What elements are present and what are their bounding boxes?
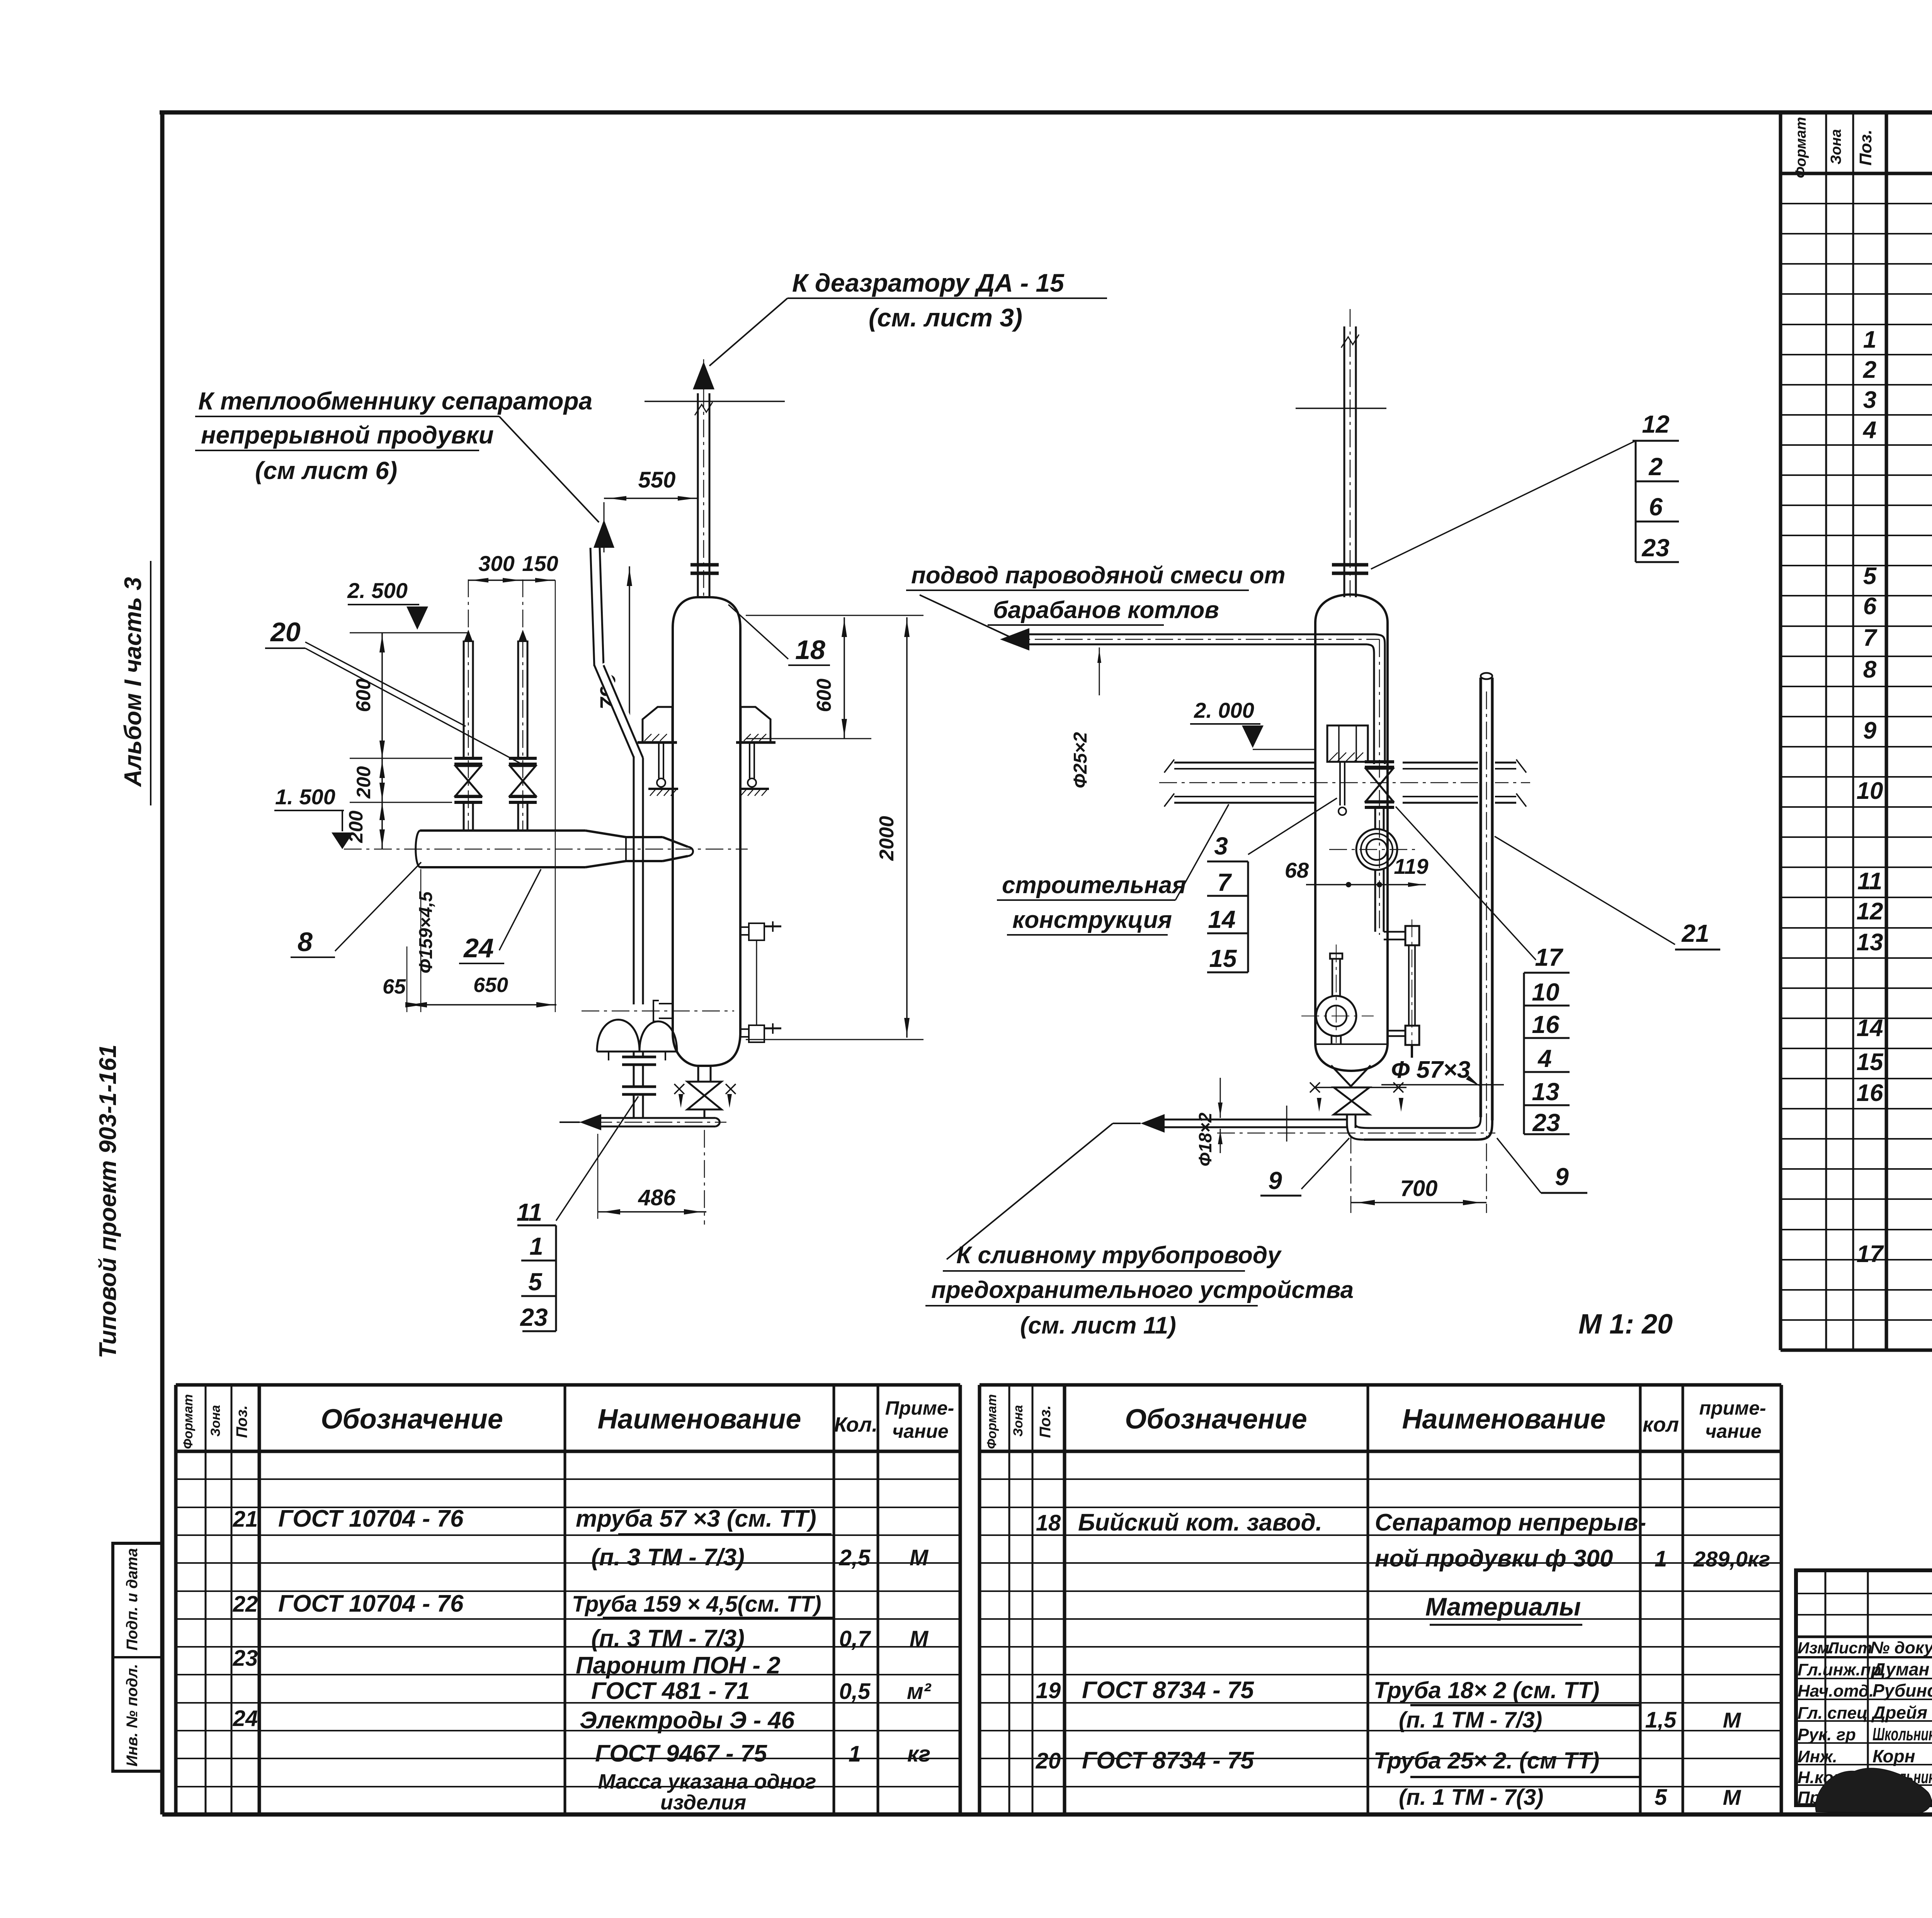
dims 68 / 119 (1306, 884, 1426, 885)
svg-text:М: М (1723, 1785, 1742, 1809)
leader to heat exchanger arrow (499, 416, 599, 522)
svg-text:10: 10 (1857, 778, 1883, 804)
dim 600 right (844, 617, 845, 739)
vessel support bracket right (741, 707, 770, 742)
svg-text:Рубинс: Рубинс (1872, 1680, 1932, 1701)
svg-text:3: 3 (1214, 832, 1228, 860)
svg-text:9: 9 (1863, 717, 1877, 744)
smudge blob (1816, 1768, 1931, 1813)
side stub on vessel left (blowdown fitting) (659, 1004, 673, 1018)
svg-text:Обозначение: Обозначение (321, 1404, 503, 1435)
svg-text:Зона: Зона (1011, 1405, 1026, 1437)
vertical pipe of safety device (633, 871, 635, 1004)
dim 700 (1351, 1202, 1486, 1203)
svg-text:м²: м² (907, 1679, 932, 1704)
svg-text:ГОСТ 10704 - 76: ГОСТ 10704 - 76 (278, 1590, 464, 1617)
inlet pipe from boilers (1028, 634, 1375, 635)
svg-text:24: 24 (233, 1706, 258, 1731)
svg-text:0,7: 0,7 (839, 1626, 871, 1651)
blowdown fitting circle with rod (1316, 996, 1356, 1036)
sheet frame (160, 112, 165, 1814)
svg-text:550: 550 (638, 467, 676, 493)
svg-text:3: 3 (1863, 387, 1876, 413)
svg-text:150: 150 (522, 551, 558, 576)
leader to deaerator arrow (709, 298, 787, 366)
svg-text:К деазратору ДА - 15: К деазратору ДА - 15 (792, 268, 1065, 297)
svg-text:Ф18×2: Ф18×2 (1195, 1113, 1215, 1167)
dim chain 600/200/200 (381, 633, 383, 849)
svg-text:Бийский кот. завод.: Бийский кот. завод. (1078, 1509, 1322, 1536)
header pipe (collector) (416, 831, 420, 867)
svg-text:Электроды Э - 46: Электроды Э - 46 (580, 1707, 795, 1734)
svg-text:11: 11 (1857, 868, 1882, 895)
svg-text:Поз.: Поз. (1856, 129, 1875, 165)
svg-text:М: М (910, 1626, 929, 1651)
svg-text:2000: 2000 (876, 816, 898, 861)
flange pair upper on safety pipe (633, 1052, 635, 1057)
svg-text:1: 1 (1655, 1546, 1667, 1571)
flow arrow up (deaerator pipe) (693, 362, 714, 389)
dim 2000 (906, 617, 908, 1038)
svg-text:486: 486 (638, 1185, 676, 1210)
svg-text:65: 65 (383, 975, 406, 998)
svg-text:Лист: Лист (1827, 1639, 1872, 1657)
hanger bracket on beam (1327, 725, 1368, 762)
svg-text:Альбом I часть 3: Альбом I часть 3 (120, 577, 146, 788)
svg-text:ГОСТ 8734 - 75: ГОСТ 8734 - 75 (1082, 1747, 1254, 1774)
dim 65 / 650 (407, 1004, 556, 1006)
svg-text:4: 4 (1537, 1045, 1552, 1072)
svg-text:Корн: Корн (1872, 1746, 1915, 1766)
svg-text:17: 17 (1535, 943, 1564, 971)
svg-text:9: 9 (1555, 1163, 1569, 1191)
svg-text:15: 15 (1857, 1049, 1884, 1075)
flow restrictor circle (1356, 829, 1397, 870)
structural beam (1174, 762, 1315, 764)
svg-text:23: 23 (520, 1303, 548, 1331)
flow arrow up (heat exchanger line) (594, 520, 614, 548)
svg-text:К сливному трубопроводу: К сливному трубопроводу (956, 1242, 1282, 1269)
dim 300/150 (468, 579, 555, 581)
svg-text:(см. лист 11): (см. лист 11) (1020, 1312, 1176, 1339)
svg-text:1,5: 1,5 (1645, 1707, 1677, 1733)
safety device double dome (597, 1020, 639, 1052)
svg-text:12: 12 (1642, 410, 1669, 438)
svg-text:2: 2 (1863, 357, 1876, 383)
svg-text:строительная: строительная (1002, 872, 1186, 899)
leader to inlet arrow (920, 595, 1009, 637)
svg-text:кол: кол (1643, 1413, 1679, 1436)
svg-text:Ф 57×3: Ф 57×3 (1391, 1057, 1470, 1083)
svg-text:16: 16 (1857, 1080, 1883, 1106)
cross marks at valve (674, 1084, 684, 1094)
leader beam label (1175, 804, 1229, 900)
svg-text:Ф159×4,5: Ф159×4,5 (416, 891, 436, 973)
svg-text:(см. лист 3): (см. лист 3) (869, 303, 1022, 332)
svg-text:предохранительного устройства: предохранительного устройства (931, 1277, 1354, 1303)
svg-text:650: 650 (473, 973, 508, 997)
vessel support bracket left (643, 707, 672, 742)
svg-text:1: 1 (529, 1232, 543, 1260)
svg-text:21: 21 (1681, 919, 1709, 947)
svg-text:7: 7 (1217, 868, 1232, 896)
dim 550 (604, 498, 698, 499)
svg-text:17: 17 (1857, 1241, 1884, 1267)
svg-text:К теплообменнику сепаратора: К теплообменнику сепаратора (198, 387, 592, 415)
hanger right (749, 742, 750, 778)
svg-text:Думан: Думан (1871, 1659, 1929, 1679)
downcomer below restrictor (1374, 869, 1376, 932)
svg-text:Инж.: Инж. (1798, 1747, 1837, 1766)
leader text: to drain piping (947, 1123, 1113, 1259)
svg-text:(п. 3 ТМ - 7/3): (п. 3 ТМ - 7/3) (591, 1625, 745, 1652)
svg-text:16: 16 (1532, 1011, 1560, 1038)
svg-text:8: 8 (1863, 656, 1877, 683)
inclined pipe to heat exchanger (590, 548, 594, 666)
svg-text:ГОСТ 481 - 71: ГОСТ 481 - 71 (591, 1678, 750, 1704)
svg-text:600: 600 (352, 679, 375, 712)
svg-text:Инв. № подл.: Инв. № подл. (124, 1664, 141, 1767)
svg-text:Материалы: Материалы (1425, 1592, 1581, 1621)
svg-text:21: 21 (233, 1507, 258, 1532)
svg-text:Нач.отд.: Нач.отд. (1798, 1682, 1874, 1701)
svg-text:Зона: Зона (208, 1405, 223, 1437)
svg-text:14: 14 (1208, 905, 1235, 933)
svg-text:24: 24 (463, 933, 494, 963)
svg-text:приме-: приме- (1699, 1397, 1766, 1419)
svg-text:2. 000: 2. 000 (1194, 698, 1254, 722)
svg-text:Формат: Формат (985, 1394, 999, 1449)
riser 1 (pipe with valve) (464, 630, 473, 642)
svg-text:19: 19 (1036, 1678, 1061, 1703)
svg-text:чание: чание (1705, 1420, 1762, 1442)
svg-text:Наименование: Наименование (1402, 1404, 1606, 1435)
svg-text:2: 2 (1648, 453, 1663, 481)
margin boxes: inv/podp (113, 1543, 162, 1771)
svg-text:Гл.инж.пр: Гл.инж.пр (1798, 1660, 1881, 1679)
svg-text:изделия: изделия (660, 1791, 746, 1814)
svg-text:6: 6 (1863, 593, 1877, 620)
svg-text:Наименование: Наименование (598, 1404, 801, 1435)
drain outlet below valve (1346, 1114, 1348, 1128)
top pipe to deaerator (right view) (1344, 326, 1345, 597)
dim 486 (598, 1211, 706, 1213)
svg-text:ГОСТ 8734 - 75: ГОСТ 8734 - 75 (1082, 1677, 1254, 1704)
svg-text:23: 23 (1641, 534, 1669, 562)
svg-text:Поз.: Поз. (1037, 1405, 1054, 1438)
gauge fittings on vessel right side (740, 927, 749, 935)
leader from 17 stack to valve (1396, 807, 1536, 960)
svg-text:12: 12 (1857, 898, 1883, 925)
svg-text:23: 23 (233, 1646, 258, 1671)
svg-text:11: 11 (517, 1198, 542, 1226)
svg-text:Сепаратор непрерыв-: Сепаратор непрерыв- (1375, 1509, 1646, 1536)
svg-text:5: 5 (528, 1268, 543, 1296)
svg-text:чание: чание (892, 1420, 949, 1442)
svg-text:Кол.: Кол. (834, 1413, 878, 1436)
svg-text:700: 700 (1400, 1176, 1438, 1201)
separator vessel (right view) (1315, 595, 1388, 623)
svg-text:Рук. гр: Рук. гр (1798, 1725, 1856, 1744)
svg-text:300: 300 (478, 551, 514, 576)
svg-text:ной продувки ф 300: ной продувки ф 300 (1375, 1545, 1613, 1572)
svg-text:Типовой проект 903-1-161: Типовой проект 903-1-161 (95, 1045, 121, 1359)
svg-text:труба 57 ×3 (см. ТТ): труба 57 ×3 (см. ТТ) (576, 1505, 816, 1532)
svg-text:0,5: 0,5 (839, 1679, 871, 1704)
svg-text:Дрейя: Дрейя (1871, 1702, 1927, 1723)
svg-text:ГОСТ 10704 - 76: ГОСТ 10704 - 76 (278, 1505, 464, 1532)
stub to level gauge bottom (1388, 1030, 1405, 1032)
inlet flow arrow (1000, 628, 1029, 651)
svg-text:200: 200 (353, 766, 374, 799)
svg-text:18: 18 (795, 635, 825, 665)
svg-text:119: 119 (1394, 854, 1428, 878)
svg-text:20: 20 (1036, 1748, 1061, 1774)
svg-text:Подп. и дата: Подп. и дата (124, 1548, 141, 1651)
valve on downcomer (1365, 760, 1394, 763)
svg-text:кг: кг (907, 1741, 930, 1767)
svg-text:289,0кг: 289,0кг (1693, 1547, 1770, 1571)
svg-text:4: 4 (1862, 417, 1876, 443)
vessel bottom cone and drain valve (right view) (1331, 1065, 1371, 1086)
svg-text:1: 1 (849, 1741, 861, 1767)
svg-text:22: 22 (233, 1592, 258, 1617)
level gauge (1405, 926, 1419, 945)
separator vessel 18 (left view) (673, 597, 740, 628)
bottom-middle table (978, 1385, 981, 1814)
svg-text:конструкция: конструкция (1012, 907, 1172, 933)
dim 790 (629, 566, 630, 739)
svg-text:Формат: Формат (181, 1394, 196, 1449)
svg-text:15: 15 (1209, 945, 1237, 972)
title block (1796, 1570, 1932, 1805)
svg-text:непрерывной продувки: непрерывной продувки (201, 421, 494, 449)
hanger left (658, 742, 660, 778)
svg-text:Труба 159 × 4,5(см. ТТ): Труба 159 × 4,5(см. ТТ) (572, 1592, 821, 1617)
svg-text:подвод пароводяной смеси о: подвод пароводяной смеси от (911, 562, 1286, 589)
svg-text:2. 500: 2. 500 (347, 578, 408, 603)
svg-text:9: 9 (1268, 1167, 1282, 1194)
svg-text:1: 1 (1863, 326, 1876, 353)
svg-text:23: 23 (1532, 1109, 1560, 1137)
deaerator pipe (697, 393, 699, 597)
drain arm 18x2 to safety drain (1163, 1119, 1347, 1121)
svg-text:Паронит ПОН - 2: Паронит ПОН - 2 (576, 1652, 781, 1679)
svg-text:(п. 1 ТМ - 7(3): (п. 1 ТМ - 7(3) (1399, 1785, 1543, 1810)
svg-text:Гл. спец: Гл. спец (1798, 1704, 1867, 1723)
svg-text:Обозначение: Обозначение (1125, 1404, 1307, 1435)
svg-text:М: М (1723, 1708, 1742, 1732)
stub to level gauge top (1384, 931, 1405, 933)
svg-text:5: 5 (1863, 563, 1877, 590)
svg-text:Поз.: Поз. (233, 1405, 250, 1438)
tick on drain arm (1286, 1106, 1287, 1142)
svg-text:2,5: 2,5 (839, 1545, 871, 1570)
svg-text:барабанов котлов: барабанов котлов (993, 597, 1219, 623)
cross marks and arrows at drain valve (1310, 1082, 1320, 1092)
svg-text:13: 13 (1532, 1078, 1559, 1106)
svg-text:5: 5 (1655, 1785, 1667, 1810)
svg-text:18: 18 (1036, 1510, 1061, 1536)
leader from 11 stack (556, 1096, 638, 1221)
bottom drain line (600, 1117, 716, 1119)
svg-text:Труба 25× 2. (см ТТ): Труба 25× 2. (см ТТ) (1374, 1748, 1599, 1774)
svg-text:Формат: Формат (1793, 117, 1809, 178)
svg-text:7: 7 (1863, 625, 1878, 651)
svg-text:№ докум.: № докум. (1870, 1638, 1932, 1657)
vessel bottom neck and drain valve (697, 1066, 699, 1082)
bottom U pipe 57x3 (1347, 1123, 1364, 1140)
riser 2 (pipe with valve) (518, 630, 527, 642)
svg-text:20: 20 (270, 617, 301, 647)
svg-text:Школьников: Школьников (1872, 1724, 1932, 1744)
svg-text:М: М (910, 1545, 929, 1570)
pipe top reference line (645, 401, 785, 402)
flange pair lower on safety pipe (622, 1086, 656, 1088)
svg-text:М 1: 20: М 1: 20 (1578, 1309, 1673, 1340)
svg-text:14: 14 (1857, 1015, 1883, 1041)
leader from 12 stack to flange (1371, 441, 1636, 569)
neck to restrictor (1374, 807, 1376, 830)
svg-text:600: 600 (813, 679, 835, 712)
svg-text:68: 68 (1285, 858, 1309, 882)
svg-text:10: 10 (1532, 978, 1559, 1006)
svg-text:(п. 1 ТМ - 7/3): (п. 1 ТМ - 7/3) (1399, 1707, 1542, 1733)
svg-text:8: 8 (298, 927, 313, 957)
svg-text:Зона: Зона (1828, 129, 1844, 165)
bottom-left material table (174, 1385, 178, 1814)
svg-text:13: 13 (1857, 929, 1883, 956)
svg-text:1. 500: 1. 500 (275, 785, 335, 809)
leader from 3 stack (1248, 798, 1337, 855)
svg-text:(п. 3 ТМ - 7/3): (п. 3 ТМ - 7/3) (591, 1544, 745, 1571)
right specification table (1779, 112, 1782, 1350)
svg-text:Масса указана одног: Масса указана одног (598, 1770, 816, 1793)
flange on top pipe (1332, 563, 1368, 567)
svg-text:ГОСТ 9467 - 75: ГОСТ 9467 - 75 (595, 1740, 767, 1767)
svg-text:Ф25×2: Ф25×2 (1070, 732, 1091, 788)
svg-text:(см лист 6): (см лист 6) (255, 457, 397, 484)
svg-text:Труба 18× 2 (см. ТТ): Труба 18× 2 (см. ТТ) (1374, 1677, 1599, 1703)
svg-text:6: 6 (1649, 493, 1663, 521)
flange on deaerator pipe (690, 563, 719, 567)
svg-text:Приме-: Приме- (885, 1397, 954, 1419)
